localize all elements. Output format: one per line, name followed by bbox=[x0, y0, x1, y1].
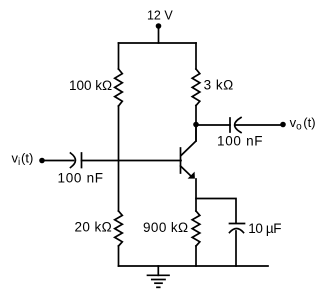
svg-text:100 kΩ: 100 kΩ bbox=[69, 78, 112, 93]
capacitor 10 uF curved plate bbox=[230, 229, 244, 233]
wire emitter branch to bypass cap bbox=[196, 199, 236, 223]
capacitor 10 uF top plate bbox=[230, 223, 245, 225]
ground bar 4 bbox=[157, 286, 160, 288]
node VCC dot bbox=[156, 23, 162, 29]
wire top rail bbox=[119, 42, 197, 44]
svg-text:100 nF: 100 nF bbox=[217, 134, 263, 149]
wire bottom rail bbox=[119, 265, 269, 267]
ground bar 2 bbox=[152, 279, 165, 281]
svg-text:100 nF: 100 nF bbox=[58, 170, 104, 185]
transistor Q1 emitter lead bbox=[181, 166, 193, 177]
wire output cap to vo bbox=[235, 124, 283, 126]
svg-text:3 kΩ: 3 kΩ bbox=[204, 78, 234, 93]
svg-text:vi(t): vi(t) bbox=[12, 151, 34, 169]
wire collector to output cap bbox=[196, 124, 230, 126]
wire left rail middle bbox=[118, 106, 120, 211]
capacitor 100 nF input straight plate bbox=[81, 153, 83, 168]
resistor 3 kOhm bbox=[192, 69, 200, 106]
resistor 100 kOhm bbox=[115, 69, 123, 106]
wire emitter vertical lower bbox=[195, 246, 197, 266]
capacitor 100 nF output straight plate bbox=[229, 118, 231, 132]
wire input bbox=[42, 160, 74, 162]
capacitor 100 nF output curved plate bbox=[235, 118, 241, 133]
ground stem bbox=[157, 266, 159, 275]
resistor 900 kOhm bbox=[192, 211, 200, 246]
transistor Q1 collector lead bbox=[181, 126, 196, 156]
wire right rail upper bbox=[195, 43, 197, 69]
wire VCC stem bbox=[158, 26, 160, 43]
svg-text:900 kΩ: 900 kΩ bbox=[143, 220, 189, 235]
transistor Q1 base bar bbox=[180, 148, 182, 173]
node vi dot bbox=[39, 158, 45, 164]
wire left rail lower bbox=[118, 246, 120, 266]
wire collector node bbox=[195, 106, 197, 142]
capacitor 100 nF input curved plate bbox=[71, 153, 76, 168]
wire left rail upper bbox=[118, 43, 120, 69]
svg-text:20 kΩ: 20 kΩ bbox=[75, 219, 113, 234]
svg-text:10 µF: 10 µF bbox=[248, 221, 281, 236]
wire bypass cap to ground rail bbox=[235, 231, 237, 266]
resistor 20 kOhm bbox=[115, 211, 123, 246]
ground bar 3 bbox=[155, 282, 162, 284]
wire base bbox=[82, 160, 182, 162]
transistor Q1 emitter arrow bbox=[188, 172, 195, 179]
ground bar 1 bbox=[148, 274, 170, 276]
svg-text:vo(t): vo(t) bbox=[290, 115, 316, 133]
svg-text:12 V: 12 V bbox=[147, 9, 173, 23]
wire emitter vertical upper bbox=[195, 179, 197, 211]
node collector dot bbox=[193, 122, 199, 128]
node vo dot bbox=[280, 122, 286, 128]
